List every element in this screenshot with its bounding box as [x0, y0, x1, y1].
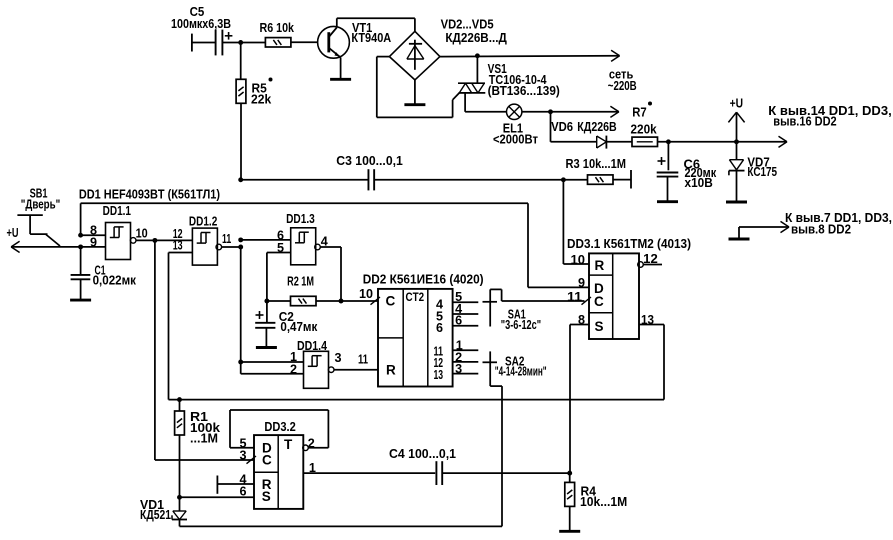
svg-text:+U: +U	[7, 226, 19, 240]
svg-text:"4-14-28мин": "4-14-28мин"	[495, 365, 547, 379]
svg-text:КД521: КД521	[140, 508, 171, 522]
svg-text:КД226В: КД226В	[577, 120, 616, 134]
svg-text:13: 13	[434, 368, 444, 382]
svg-text:6: 6	[436, 321, 443, 335]
svg-text:3: 3	[240, 449, 247, 463]
svg-text:КС175: КС175	[747, 165, 777, 179]
svg-text:"Дверь": "Дверь"	[21, 198, 60, 212]
svg-text:S: S	[262, 489, 271, 504]
svg-text:12: 12	[643, 252, 658, 266]
svg-text:х10В: х10В	[685, 176, 713, 190]
svg-text:DD1.2: DD1.2	[189, 214, 217, 228]
svg-text:выв.8 DD2: выв.8 DD2	[791, 222, 851, 236]
svg-text:VD6: VD6	[551, 120, 573, 134]
svg-text:10: 10	[571, 253, 586, 267]
svg-text:S: S	[595, 319, 604, 334]
svg-text:C3 100...0,1: C3 100...0,1	[336, 154, 403, 168]
svg-text:0,022мк: 0,022мк	[93, 273, 137, 287]
svg-text:~220В: ~220В	[608, 79, 637, 93]
svg-text:R7: R7	[632, 106, 647, 120]
svg-text:C: C	[262, 453, 272, 468]
svg-text:...1М: ...1М	[190, 432, 218, 446]
svg-text:5: 5	[277, 241, 284, 255]
svg-text:DD1.3: DD1.3	[286, 212, 315, 226]
svg-text:C4 100...0,1: C4 100...0,1	[389, 447, 456, 461]
svg-text:3: 3	[455, 362, 462, 376]
svg-text:DD3.2: DD3.2	[264, 420, 295, 434]
svg-text:R: R	[386, 363, 396, 378]
svg-text:2: 2	[290, 362, 297, 376]
svg-text:C: C	[386, 293, 396, 308]
svg-text:DD2 К561ИЕ16 (4020): DD2 К561ИЕ16 (4020)	[363, 273, 484, 287]
svg-text:(ВТ136...139): (ВТ136...139)	[488, 84, 560, 98]
svg-text:9: 9	[578, 276, 585, 290]
svg-text:DD1.1: DD1.1	[103, 204, 131, 218]
svg-text:6: 6	[455, 314, 462, 328]
svg-text:VD2...VD5: VD2...VD5	[441, 18, 494, 32]
svg-text:11: 11	[222, 232, 231, 246]
svg-text:4: 4	[321, 234, 328, 248]
svg-text:DD3.1 К561ТМ2 (4013): DD3.1 К561ТМ2 (4013)	[567, 237, 691, 251]
svg-text:T: T	[284, 437, 293, 452]
svg-text:R6 10k: R6 10k	[260, 21, 295, 35]
svg-text:3: 3	[335, 351, 342, 365]
svg-text:22k: 22k	[251, 92, 272, 106]
svg-text:10: 10	[136, 226, 148, 240]
svg-text:<2000Вт: <2000Вт	[493, 133, 538, 147]
svg-text:100мкх6,3В: 100мкх6,3В	[171, 17, 231, 31]
svg-text:0,47мк: 0,47мк	[280, 320, 318, 334]
svg-text:DD1.4: DD1.4	[297, 339, 327, 353]
svg-text:8: 8	[578, 313, 585, 327]
svg-text:DD1 HEF4093BT (К561ТЛ1): DD1 HEF4093BT (К561ТЛ1)	[79, 187, 220, 201]
svg-text:220k: 220k	[631, 122, 658, 136]
svg-text:6: 6	[240, 485, 247, 499]
svg-text:9: 9	[90, 235, 97, 249]
svg-text:11: 11	[358, 353, 368, 367]
svg-text:13: 13	[641, 313, 654, 327]
svg-text:CT2: CT2	[406, 290, 425, 304]
svg-text:2: 2	[308, 437, 315, 451]
svg-text:11: 11	[567, 290, 582, 304]
svg-text:R: R	[595, 258, 605, 273]
svg-text:R3 10k...1М: R3 10k...1М	[566, 157, 627, 171]
svg-text:+U: +U	[730, 97, 743, 111]
svg-text:выв.16 DD2: выв.16 DD2	[773, 114, 836, 128]
svg-text:10k...1М: 10k...1М	[580, 495, 627, 509]
svg-text:"3-6-12с": "3-6-12с"	[501, 318, 541, 332]
svg-text:R2 1М: R2 1М	[287, 275, 314, 289]
svg-text:C: C	[594, 294, 604, 309]
svg-text:1: 1	[309, 461, 316, 475]
svg-text:13: 13	[173, 239, 183, 253]
svg-text:КТ940А: КТ940А	[351, 31, 391, 45]
svg-text:КД226В...Д: КД226В...Д	[445, 31, 506, 45]
svg-text:10: 10	[359, 287, 373, 301]
